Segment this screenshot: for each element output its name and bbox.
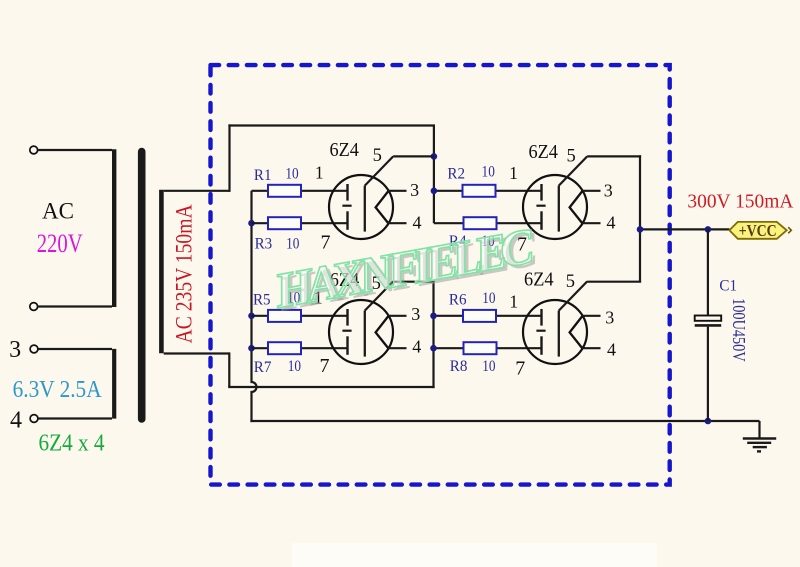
V2 anode arrow — [376, 316, 389, 348]
V2 heater electrode bottom bar — [346, 336, 348, 355]
power symbol +VCC banner — [729, 222, 786, 239]
svg-text:220V: 220V — [37, 229, 83, 258]
tube V4 6Z4 envelope — [523, 300, 587, 364]
junction R6 node — [430, 313, 437, 320]
label AC 235V 150mA — [172, 204, 197, 343]
svg-text:R1: R1 — [254, 167, 272, 184]
capacitor C1 negative plate — [695, 324, 722, 327]
svg-text:R3: R3 — [255, 236, 273, 253]
junction R5 node — [248, 313, 255, 320]
V3 heater electrode top bar — [540, 184, 542, 201]
label C1 value 100U450V — [729, 298, 749, 362]
svg-text:R8: R8 — [450, 358, 468, 375]
resistor R2 10 ohm — [463, 185, 496, 197]
terminal primary top — [30, 146, 38, 154]
svg-text:10: 10 — [286, 236, 299, 253]
svg-text:6Z4: 6Z4 — [329, 139, 359, 161]
svg-text:5: 5 — [566, 147, 575, 167]
svg-text:R6: R6 — [449, 291, 467, 308]
wire V1 pin5 diagonal — [365, 156, 393, 185]
svg-text:300V 150mA: 300V 150mA — [687, 191, 793, 213]
tube V3 6Z4 envelope — [523, 175, 587, 239]
wire R6 feed — [434, 315, 464, 317]
junction capacitor top node — [705, 226, 712, 233]
wire V2 pin3 stub — [388, 315, 406, 317]
svg-text:10: 10 — [285, 166, 298, 183]
svg-text:3: 3 — [9, 337, 21, 363]
V1 heater electrode bottom bar — [346, 211, 348, 230]
wire V1 pin3 stub — [388, 190, 406, 192]
wire R3 row — [252, 222, 269, 224]
wire R2 feed — [434, 190, 463, 192]
wire V4 pin5 diagonal — [559, 281, 587, 310]
V2 heater dash — [342, 330, 351, 332]
tube V2 6Z4 envelope — [329, 300, 393, 364]
terminal primary bottom — [30, 303, 38, 311]
V2 heater electrode top bar — [346, 309, 348, 326]
transformer T1 primary winding — [112, 149, 116, 307]
dashed boundary box — [211, 65, 670, 485]
svg-text:7: 7 — [515, 357, 525, 379]
wire R6 to V4 pin1 — [496, 315, 542, 317]
wire R8 to V4 pin7 — [497, 347, 542, 349]
transformer T1 secondary winding HV — [159, 190, 164, 353]
svg-text:R7: R7 — [254, 359, 272, 376]
power symbol +VCC arrow tick — [788, 227, 791, 233]
V2 cathode line — [364, 311, 366, 357]
V4 heater electrode top bar — [540, 309, 542, 326]
svg-text:10: 10 — [482, 358, 495, 375]
junction R8 node — [430, 345, 437, 352]
svg-text:1: 1 — [509, 163, 518, 183]
bottom white strip — [292, 543, 657, 567]
wire V4 pin4 stub — [582, 347, 600, 349]
wire V4 pin3 stub — [582, 315, 600, 317]
wire capacitor lower lead — [707, 327, 709, 421]
junction output bus tap — [637, 226, 644, 233]
svg-text:3: 3 — [410, 180, 419, 200]
wire lower AC rail — [228, 386, 434, 388]
svg-text:R5: R5 — [253, 291, 271, 308]
wire bus tube V1 right — [433, 126, 435, 224]
wire output bus — [639, 155, 641, 282]
wire V3 pin4 stub — [582, 222, 600, 224]
V3 heater dash — [536, 205, 545, 207]
wire V1 pin5 horizontal — [393, 155, 434, 157]
svg-text:6.3V 2.5A: 6.3V 2.5A — [13, 377, 103, 403]
wire capacitor upper lead — [707, 229, 709, 315]
junction R7 node — [248, 345, 255, 352]
terminal heater 4 — [30, 415, 38, 423]
resistor R6 10 ohm — [463, 310, 496, 322]
wire riser secondary top — [228, 124, 230, 191]
svg-text:6Z4: 6Z4 — [528, 141, 558, 163]
V4 anode arrow — [570, 316, 583, 348]
wire dropper secondary bottom — [228, 352, 230, 387]
wire R5 row — [252, 315, 269, 317]
wire R7 row — [252, 347, 269, 349]
resistor R4 10 ohm — [464, 217, 497, 229]
transformer T1 heater winding 6.3V — [112, 349, 116, 419]
V1 heater electrode top bar — [346, 184, 348, 201]
svg-text:4: 4 — [412, 337, 421, 357]
wire V2 pin5 diagonal — [365, 281, 393, 310]
svg-text:R2: R2 — [447, 166, 465, 183]
V4 heater dash — [536, 330, 545, 332]
wire V4 pin5 horizontal — [587, 281, 641, 283]
svg-text:3: 3 — [604, 181, 613, 201]
V1 anode arrow — [376, 191, 389, 223]
svg-text:3: 3 — [605, 307, 614, 327]
wire R1 row — [252, 190, 269, 192]
V1 cathode line — [364, 186, 366, 232]
svg-text:AC: AC — [42, 198, 74, 223]
V1 heater dash — [342, 205, 351, 207]
svg-text:C1: C1 — [719, 277, 737, 294]
wire V3 pin3 stub — [582, 190, 600, 192]
svg-text:7: 7 — [320, 355, 330, 377]
V3 anode arrow — [570, 191, 583, 223]
wire R8 feed — [434, 347, 464, 349]
wire V3 pin5 horizontal — [587, 155, 641, 157]
svg-text:10: 10 — [482, 290, 495, 307]
resistor R8 10 ohm — [464, 342, 497, 354]
resistor R1 10 ohm — [268, 185, 301, 197]
V3 heater electrode bottom bar — [540, 211, 542, 230]
wire V1 pin4 stub — [388, 222, 406, 224]
wire V2 pin4 stub — [388, 347, 406, 349]
svg-text:AC 235V 150mA: AC 235V 150mA — [172, 204, 197, 343]
wire heater pin4 — [38, 417, 112, 419]
junction R3 node — [248, 220, 255, 227]
wire primary bottom — [38, 305, 112, 307]
svg-text:+VCC: +VCC — [739, 221, 777, 240]
svg-text:1: 1 — [509, 291, 518, 311]
junction V1 pin5 node — [431, 153, 438, 160]
svg-text:10: 10 — [288, 358, 301, 375]
wire heater pin3 — [38, 348, 112, 350]
svg-text:5: 5 — [566, 272, 575, 292]
transformer T1 core — [138, 152, 146, 420]
capacitor C1 positive plate — [695, 316, 722, 321]
resistor R7 10 ohm — [268, 342, 301, 354]
svg-text:5: 5 — [373, 146, 382, 166]
V4 heater electrode bottom bar — [540, 336, 542, 355]
svg-text:3: 3 — [411, 304, 420, 324]
wire R4 feed — [434, 222, 464, 224]
wire left resistor bus with hop — [252, 191, 257, 422]
resistor R5 10 ohm — [268, 310, 301, 322]
svg-text:100U450V: 100U450V — [729, 298, 749, 362]
V3 cathode line — [558, 186, 560, 232]
wire R2 to V3 pin1 — [496, 190, 542, 192]
svg-text:4: 4 — [10, 407, 22, 433]
wire V2 pin5 horizontal — [393, 281, 434, 283]
wire bus tube V2 right — [432, 282, 434, 388]
svg-text:4: 4 — [413, 213, 422, 233]
resistor R3 10 ohm — [268, 217, 301, 229]
terminal heater 3 — [30, 345, 38, 353]
wire primary top — [38, 149, 112, 151]
svg-text:4: 4 — [607, 339, 616, 359]
wire secondary top to node — [164, 190, 230, 192]
svg-text:6Z4 x 4: 6Z4 x 4 — [39, 431, 105, 457]
wire output rail to VCC — [640, 228, 729, 230]
svg-text:7: 7 — [321, 232, 331, 254]
svg-text:4: 4 — [607, 213, 616, 233]
junction capacitor bottom node — [705, 418, 712, 425]
svg-text:10: 10 — [482, 164, 495, 181]
tube V1 6Z4 envelope — [329, 175, 393, 239]
wire R4 to V3 pin7 — [497, 222, 542, 224]
V4 cathode line — [558, 311, 560, 357]
watermark — [269, 217, 542, 323]
junction R2 node — [431, 188, 438, 195]
ground symbol — [743, 421, 776, 451]
wire ground rail — [250, 420, 759, 422]
wire V3 pin5 diagonal — [559, 156, 587, 185]
wire top rail — [228, 124, 435, 126]
wire secondary bottom to node — [164, 352, 230, 354]
svg-text:1: 1 — [315, 162, 324, 182]
